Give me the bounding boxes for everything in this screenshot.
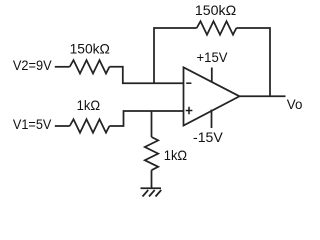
svg-text:150kΩ: 150kΩ	[70, 41, 110, 57]
wire non-inverting node down to R4	[151, 111, 153, 137]
wire V2 resistor to inverting input	[109, 67, 183, 84]
label source V2=9V	[13, 57, 52, 73]
wire output	[240, 95, 286, 97]
svg-text:1kΩ: 1kΩ	[77, 97, 101, 113]
wire V2 lead	[55, 66, 70, 68]
wire V1 lead	[55, 125, 70, 127]
op-amp U1	[184, 67, 240, 125]
wire R4 to ground	[151, 170, 153, 188]
svg-text:1kΩ: 1kΩ	[164, 147, 187, 163]
resistor R3 1kΩ (V1 input zigzag)	[70, 119, 110, 132]
svg-text:-15V: -15V	[193, 129, 223, 145]
wire feedback left (node minus to top rail)	[154, 28, 197, 84]
wire V1 resistor to non-inverting input	[109, 111, 183, 126]
resistor R1 150kΩ (V2 input zigzag)	[70, 60, 110, 73]
resistor Rf 150kΩ (feedback zigzag)	[197, 21, 237, 34]
resistor R4 1kΩ (shunt to ground, vertical zigzag)	[145, 137, 158, 170]
svg-text:+15V: +15V	[197, 49, 229, 65]
svg-text:150kΩ: 150kΩ	[195, 2, 236, 18]
label -15V supply	[193, 129, 223, 145]
label R1 value 150kΩ	[70, 41, 110, 57]
wire negative supply	[211, 110, 213, 128]
wire positive supply	[211, 68, 213, 82]
label source V1=5V	[13, 116, 52, 132]
svg-text:V1=5V: V1=5V	[13, 116, 52, 132]
svg-text:Vo: Vo	[287, 96, 303, 112]
label R4 value 1kΩ	[164, 147, 187, 163]
svg-text:V2=9V: V2=9V	[13, 57, 52, 73]
wire feedback right (top rail down to output node)	[236, 28, 270, 96]
label Rf value 150kΩ (top)	[195, 2, 236, 18]
node Vo output label	[287, 96, 303, 112]
label +15V supply	[197, 49, 229, 65]
ground	[141, 188, 162, 196]
label R3 value 1kΩ	[77, 97, 101, 113]
